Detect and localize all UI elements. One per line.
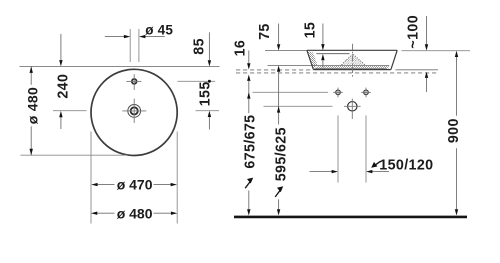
drain hole (top view) [122,99,146,123]
wall drain hole (section view) [344,99,361,119]
countertop dashed line bottom [236,72,438,74]
dimension 675/675 line [243,81,259,216]
stipple: left wall section [307,51,317,69]
dimension 16 [233,40,251,81]
wall faucet hole right (section view) [361,88,371,98]
hole extension verticals [337,116,339,183]
svg-text:ø 45: ø 45 [145,22,173,37]
dimension 75 [257,23,280,71]
floor line [234,216,467,219]
centerline through basin [352,44,354,78]
bottom vertical extension lines [90,132,92,224]
faucet-level extension line right [178,80,216,82]
dimension 900 [446,51,462,216]
dimension 240 [56,34,72,129]
faucet hole (top view) [126,74,141,90]
svg-text:ø 480: ø 480 [24,87,40,124]
svg-text:155: 155 [198,81,214,106]
dimension ø45 [105,22,174,62]
dimension 155 [198,80,214,130]
svg-text:150/120: 150/120 [379,157,433,173]
countertop dashed line top [236,69,312,71]
dimension 85 [191,32,211,66]
top extension line [20,66,220,68]
dimension 595/625 line [273,72,289,216]
svg-text:240: 240 [56,74,72,99]
basin outer circle [91,69,177,155]
stipple: center mound [342,54,366,65]
svg-text:85: 85 [191,38,207,55]
svg-text:ø 480: ø 480 [117,205,153,221]
dimension ø480 (bottom) [91,205,177,221]
svg-text:675/675: 675/675 [243,115,259,169]
svg-text:16: 16 [233,40,249,57]
drain-level extension line right [196,110,220,112]
svg-text:~100: ~100 [406,15,422,49]
dimension 15 [303,22,325,68]
dimension ø480 (left vertical) [24,67,40,156]
drain-level extension line left [53,110,87,112]
dimension ~100 [406,15,429,92]
countertop solid line right [396,69,439,71]
wall faucet hole left (section view) [333,88,343,98]
svg-text:75: 75 [257,23,273,40]
basin inner-bottom line [268,64,390,66]
basin inner rim line [316,53,349,55]
svg-text:900: 900 [446,118,462,143]
svg-text:ø 470: ø 470 [117,177,153,193]
bottom extension line [21,154,128,156]
stipple: bottom slab section [314,66,389,69]
dimension ø470 [91,177,177,193]
svg-text:15: 15 [303,22,319,39]
basin-top extension line left [265,50,307,52]
basin section outline [307,50,397,69]
basin-top extension line right [402,50,471,52]
dimension 150/120 [310,157,434,173]
faucet-level extension line [253,91,329,93]
svg-text:595/625: 595/625 [273,127,289,181]
drain-level extension line [264,105,333,107]
